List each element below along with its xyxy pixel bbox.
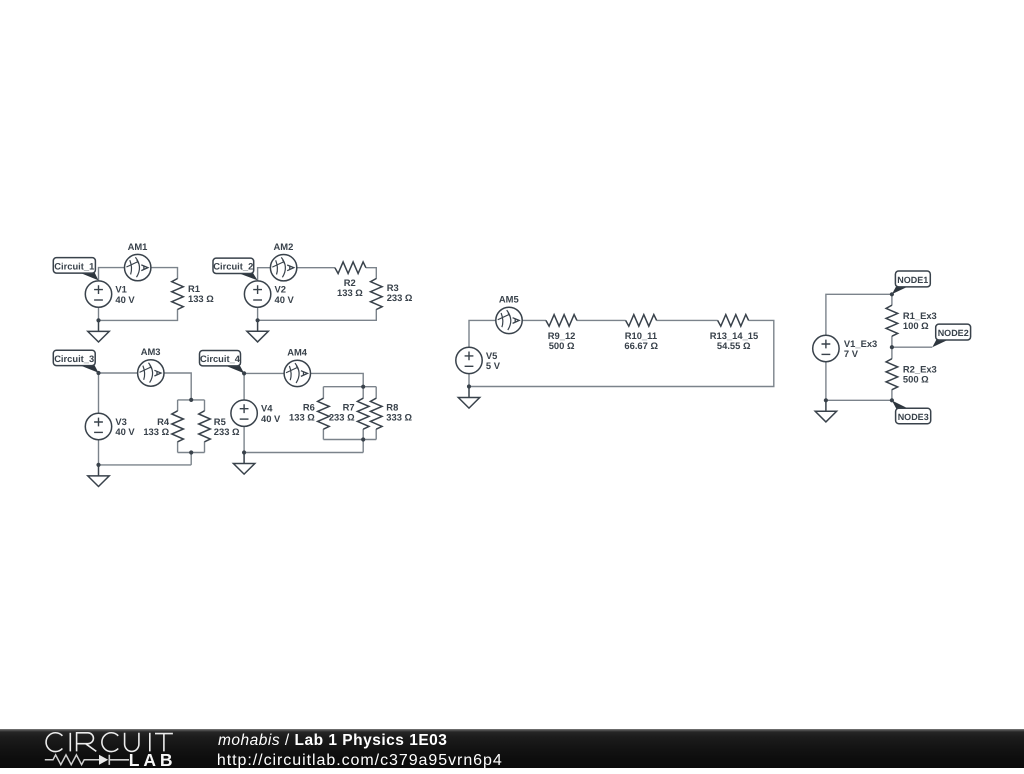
wire parallel top bar xyxy=(178,399,205,401)
wire R2 to R3 top xyxy=(366,268,377,279)
wire parallel bottom bar xyxy=(178,452,205,454)
flag Circuit_3 xyxy=(78,365,98,373)
svg-text:100 Ω: 100 Ω xyxy=(903,320,929,331)
ammeter AM4 xyxy=(284,360,310,386)
node parallel top c4 xyxy=(361,385,365,389)
svg-text:Circuit_3: Circuit_3 xyxy=(54,354,94,364)
resistor R1_Ex3 xyxy=(886,305,898,336)
wire R1_Ex3 to R2_Ex3 xyxy=(891,336,893,359)
svg-text:Circuit_4: Circuit_4 xyxy=(200,354,241,364)
flag Circuit_2 xyxy=(237,273,258,281)
wire bottom return circuit 4 xyxy=(244,452,363,454)
wire R8 top lead xyxy=(375,387,377,399)
svg-text:500 Ω: 500 Ω xyxy=(903,373,929,384)
wire V3 bottom xyxy=(98,440,100,465)
wire parallel bottom to return xyxy=(190,453,192,465)
svg-text:AM5: AM5 xyxy=(499,294,519,305)
node V1-ground junction xyxy=(96,318,100,322)
wire V1 bottom xyxy=(98,307,100,320)
resistor R4 xyxy=(172,411,184,442)
voltage source V3 40 V xyxy=(85,413,111,439)
voltage source V1_Ex3 7 V xyxy=(813,335,839,361)
svg-text:40 V: 40 V xyxy=(261,413,281,424)
svg-text:333 Ω: 333 Ω xyxy=(386,412,412,423)
wire R5 bottom lead xyxy=(204,442,206,453)
ammeter AM3 xyxy=(138,360,164,386)
resistor R2_Ex3 xyxy=(886,359,898,390)
svg-text:5 V: 5 V xyxy=(486,360,501,371)
wire AM2 to R2 xyxy=(297,267,335,269)
ground circuit 2 xyxy=(247,320,268,342)
svg-text:AM1: AM1 xyxy=(128,241,148,252)
svg-text:40 V: 40 V xyxy=(275,294,295,305)
svg-text:133 Ω: 133 Ω xyxy=(143,426,169,437)
resistor R2 xyxy=(335,262,366,274)
wire V2 bottom xyxy=(257,307,259,320)
node circuit 4 top-left xyxy=(242,371,246,375)
svg-text:NODE2: NODE2 xyxy=(938,328,969,338)
ammeter AM2 xyxy=(270,255,296,281)
svg-text:40 V: 40 V xyxy=(115,426,135,437)
resistor R3 xyxy=(371,279,383,310)
svg-text:mohabis / Lab 1 Physics 1E03: mohabis / Lab 1 Physics 1E03 xyxy=(218,731,447,748)
wire R2_Ex3 bottom xyxy=(891,389,893,400)
wire bottom return circuit 3 xyxy=(99,464,192,466)
wire R8 bottom lead xyxy=(375,429,377,440)
wire V1_Ex3 top to NODE1 xyxy=(826,294,892,335)
flag NODE3 xyxy=(892,401,910,410)
wire R10_11 to R13_14_15 xyxy=(657,319,718,321)
svg-text:233 Ω: 233 Ω xyxy=(329,412,355,423)
ground circuit 3 xyxy=(88,465,109,487)
node parallel top xyxy=(189,398,193,402)
node V1_Ex3 bottom junction xyxy=(824,398,828,402)
resistor R10_11 xyxy=(626,315,657,327)
svg-text:NODE3: NODE3 xyxy=(898,412,929,422)
node V2-ground junction xyxy=(256,318,260,322)
logo text CIRCUIT xyxy=(46,732,173,751)
wire R6 top lead xyxy=(322,387,324,399)
resistor R9_12 xyxy=(546,315,577,327)
ammeter AM5 xyxy=(496,307,522,333)
svg-text:Circuit_1: Circuit_1 xyxy=(54,261,94,271)
resistor R8 xyxy=(370,398,382,429)
svg-text:AM2: AM2 xyxy=(274,241,294,252)
flag Circuit_4 xyxy=(224,365,245,373)
svg-text:54.55 Ω: 54.55 Ω xyxy=(717,340,751,351)
wire bottom return to R3 xyxy=(258,309,377,320)
wire V5 bottom xyxy=(468,374,470,387)
wire node to AM4 xyxy=(244,372,284,374)
svg-text:500 Ω: 500 Ω xyxy=(549,340,575,351)
wire V5 top to AM5 xyxy=(469,320,496,347)
wire AM5 to R9_12 xyxy=(522,319,546,321)
svg-text:133 Ω: 133 Ω xyxy=(188,293,214,304)
logo schematic: resistor and diode xyxy=(45,754,99,764)
ammeter AM1 xyxy=(125,254,151,280)
svg-text:133 Ω: 133 Ω xyxy=(289,412,315,423)
wire right return loop xyxy=(469,320,774,386)
wire bottom return to R1 xyxy=(99,309,178,320)
ground circuit 1 xyxy=(88,320,109,342)
wire node to AM3 xyxy=(99,372,138,374)
flag Circuit_1 xyxy=(78,272,98,280)
svg-text:AM4: AM4 xyxy=(287,347,308,358)
flag NODE1 xyxy=(892,286,910,294)
wire AM3 to parallel top xyxy=(164,373,191,400)
resistor R1 xyxy=(172,279,184,310)
node parallel bottom xyxy=(189,450,193,454)
node V3-ground junction xyxy=(96,463,100,467)
wire R5 top lead xyxy=(204,400,206,411)
resistor R7 xyxy=(357,398,369,429)
wire R7 bottom lead xyxy=(362,429,364,440)
resistor R13_14_15 xyxy=(718,315,749,327)
node circuit 3 top-left xyxy=(96,371,100,375)
svg-text:7 V: 7 V xyxy=(844,348,859,359)
wire node to V4 top xyxy=(243,373,245,400)
wire parallel bottom to return c4 xyxy=(362,440,364,453)
svg-text:133 Ω: 133 Ω xyxy=(337,287,363,298)
wire R7 top lead xyxy=(362,387,364,399)
flag NODE2 xyxy=(932,339,949,347)
wire R4 bottom lead xyxy=(177,442,179,453)
wire node to V3 top xyxy=(98,373,100,413)
svg-text:AM3: AM3 xyxy=(141,346,161,357)
svg-text:Circuit_2: Circuit_2 xyxy=(213,262,253,272)
node V5-ground junction xyxy=(467,384,471,388)
resistor R5 xyxy=(199,411,211,442)
wire V2 top to AM2 xyxy=(258,268,271,281)
ground Ex3 xyxy=(815,400,836,422)
wire R6 bottom lead xyxy=(322,429,324,440)
node parallel bottom c4 xyxy=(361,437,365,441)
voltage source V5 5 V xyxy=(456,347,482,373)
svg-text:233 Ω: 233 Ω xyxy=(214,426,240,437)
svg-text:233 Ω: 233 Ω xyxy=(387,292,413,303)
node NODE2 xyxy=(890,345,894,349)
wire R9_12 to R10_11 xyxy=(577,319,626,321)
wire R4 top lead xyxy=(177,400,179,411)
svg-text:40 V: 40 V xyxy=(115,294,135,305)
ground middle circuit xyxy=(458,387,479,409)
voltage source V1 40 V xyxy=(85,281,111,307)
wire parallel top bar c4 xyxy=(323,386,376,388)
wire V1 top to AM1 xyxy=(99,268,125,281)
voltage source V2 40 V xyxy=(244,281,270,307)
wire V4 bottom xyxy=(243,426,245,452)
wire parallel bottom bar c4 xyxy=(323,439,376,441)
resistor R6 xyxy=(318,398,330,429)
wire NODE1 to R1_Ex3 xyxy=(891,294,893,305)
voltage source V4 40 V xyxy=(231,400,257,426)
svg-text:NODE1: NODE1 xyxy=(897,275,928,285)
svg-text:66.67 Ω: 66.67 Ω xyxy=(624,340,658,351)
wire AM4 to parallel top xyxy=(310,373,363,386)
ground circuit 4 xyxy=(233,453,254,475)
svg-text:http://circuitlab.com/c379a95v: http://circuitlab.com/c379a95vrn6p4 xyxy=(217,751,503,768)
wire V1_Ex3 bottom xyxy=(825,362,827,401)
node NODE1 xyxy=(890,292,894,296)
svg-text:LAB: LAB xyxy=(129,750,177,769)
node V4-ground junction xyxy=(242,450,246,454)
footer bar xyxy=(0,729,1024,769)
wire bottom Ex3 xyxy=(826,399,892,401)
wire AM1 to R1 top xyxy=(151,268,178,279)
wire stub to NODE2 xyxy=(892,346,932,348)
node NODE3 xyxy=(890,398,894,402)
